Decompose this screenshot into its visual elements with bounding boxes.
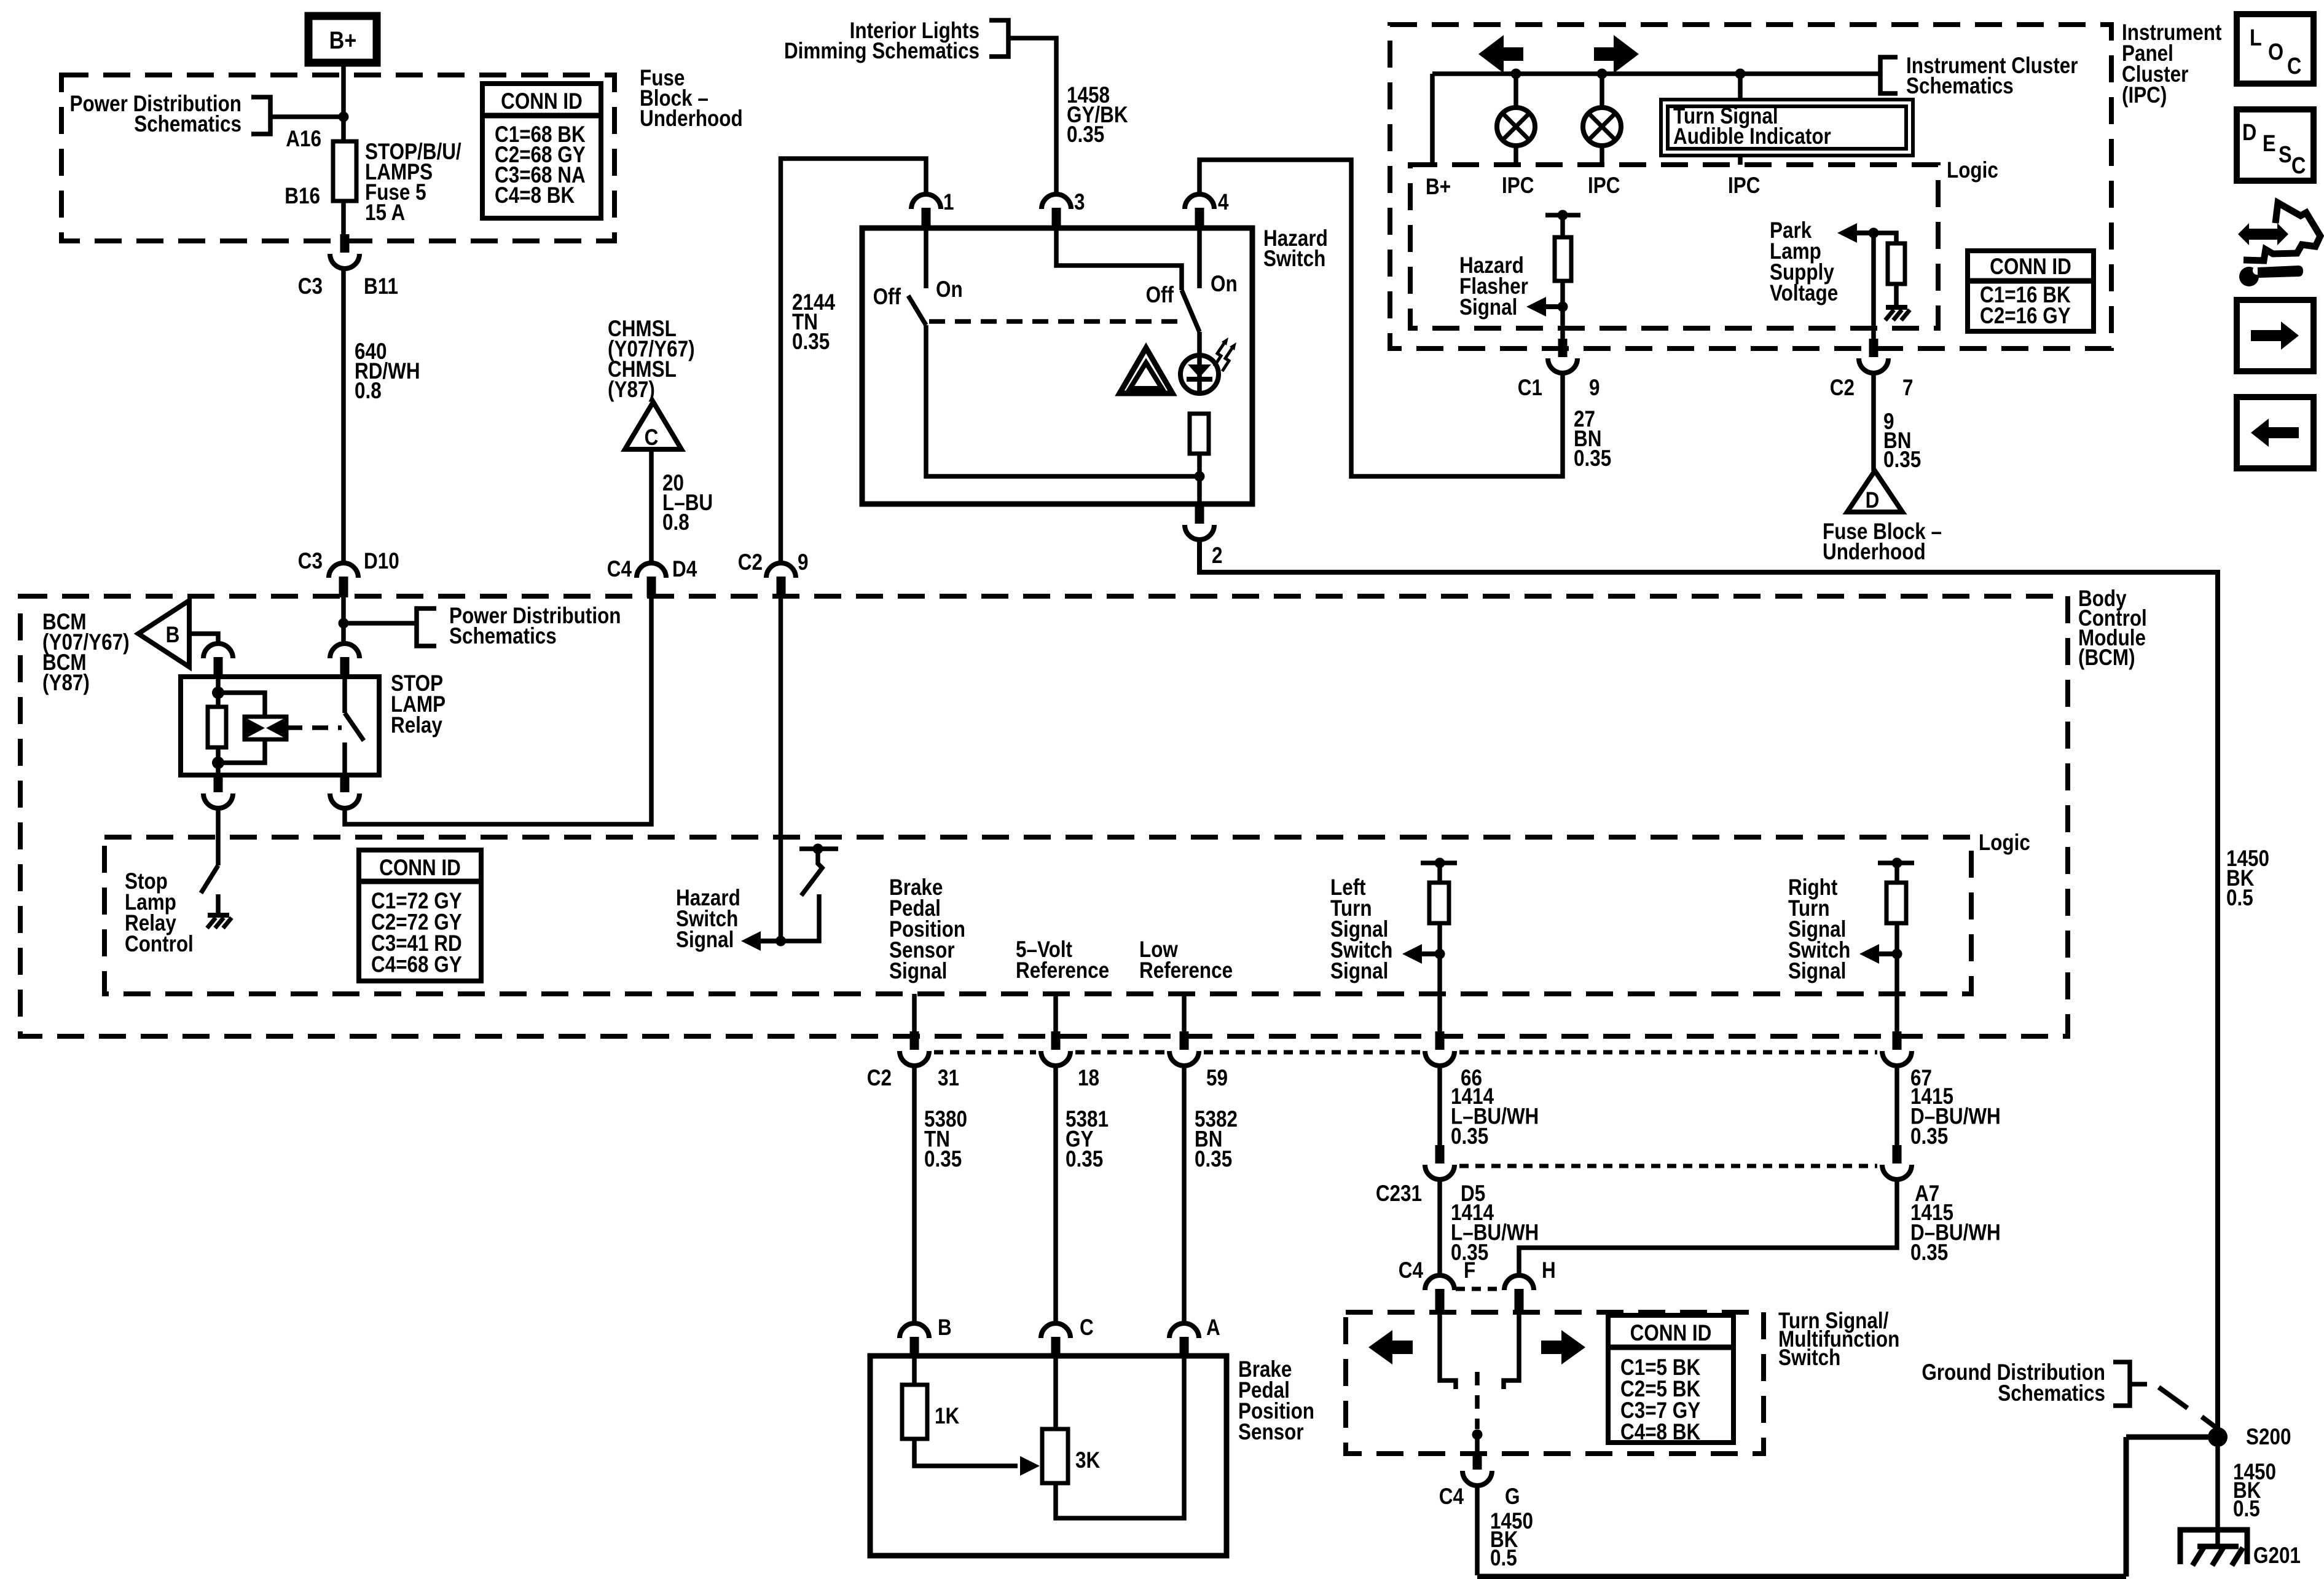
LED triangle [1188,364,1211,377]
connector C1 IPC [1548,358,1577,373]
svg-text:15 A: 15 A [365,200,405,226]
connector C231/A7 [1882,1165,1912,1179]
node multifunction common [1472,1430,1483,1440]
resistor 1K [902,1385,927,1439]
svg-text:B16: B16 [285,184,320,209]
svg-text:Schematics: Schematics [1906,74,2014,99]
wire pin B to 1K [912,1358,917,1385]
connector C2/31 [900,1051,929,1066]
connector pin B [900,1323,929,1338]
relay switch blade [345,713,364,741]
icon box DESC [2237,109,2314,181]
resistor 3K [1042,1429,1068,1483]
svg-text:D4: D4 [672,557,697,582]
node right turn signal [1892,949,1902,959]
wire common to G [1475,1435,1480,1452]
svg-text:S: S [2279,142,2292,168]
svg-text:2: 2 [1212,543,1222,569]
svg-text:18: 18 [1078,1066,1099,1091]
wire B triangle to relay [189,634,218,644]
node junction LED/left-pole [1195,471,1205,482]
svg-text:D: D [2242,120,2256,146]
connector 67 [1882,1051,1912,1066]
IPC feed bus [1432,71,1878,76]
connector F [1425,1275,1454,1290]
svg-text:Voltage: Voltage [1770,281,1838,306]
power symbol B+ box [308,16,377,63]
icon box LOC [2237,14,2314,84]
connector 18 [1041,1051,1070,1066]
bracket instrument cluster schematics [1880,57,1898,93]
connector 59 [1169,1051,1199,1066]
connector pin A [1169,1323,1199,1338]
hazard triangle symbol outer [1120,348,1172,393]
svg-text:0.35: 0.35 [1910,1124,1948,1149]
svg-text:C3: C3 [298,274,323,299]
svg-text:(Y87): (Y87) [608,377,655,403]
svg-text:Schematics: Schematics [449,624,557,649]
svg-text:Sensor: Sensor [1238,1420,1304,1445]
left turn signal pull-up T bar [1421,860,1457,865]
svg-text:Underhood: Underhood [1823,540,1926,565]
ground symbol G201 [2180,1530,2247,1564]
arrow park lamp supply [1857,230,1874,235]
svg-text:IPC: IPC [1728,173,1760,199]
wire bulb2 to logic edge [1600,146,1604,165]
svg-text:C4=8 BK: C4=8 BK [1620,1420,1700,1445]
node park lamp supply [1869,228,1879,238]
wire pin1 to 2144 TN drop [781,159,927,563]
wire to power distribution bracket [343,621,417,626]
right turn arrow icon [1594,35,1639,73]
svg-text:0.35: 0.35 [1195,1147,1232,1172]
svg-text:3K: 3K [1075,1448,1100,1473]
svg-text:L: L [2250,25,2262,51]
node left turn signal [1435,949,1445,959]
svg-text:Reference: Reference [1139,958,1233,983]
ground symbol IPC [1886,305,1907,310]
resistor hazard flasher [1555,237,1571,281]
svg-text:On: On [1211,272,1238,297]
triangle C CHMSL [625,402,681,449]
svg-text:0.35: 0.35 [1574,446,1611,471]
bracket ground distribution [2113,1362,2130,1406]
dashed box IPC logic [1410,165,1938,328]
svg-text:C231: C231 [1376,1181,1422,1207]
svg-text:0.35: 0.35 [1451,1124,1488,1149]
svg-text:C2: C2 [1830,376,1855,401]
switch blade right pole [1182,290,1199,332]
icon wrench [2239,267,2259,286]
bracket interior lights [989,20,1008,57]
arrow left turn signal [1421,951,1440,956]
node junction on fuse feed [339,112,349,122]
hazard triangle symbol inner [1130,363,1162,388]
wire left turn to node [1437,923,1442,994]
svg-text:Audible Indicator: Audible Indicator [1673,124,1831,149]
svg-text:0.5: 0.5 [1490,1546,1517,1571]
svg-text:C: C [1080,1315,1094,1341]
svg-text:C: C [2287,53,2301,79]
wire relay control to switch [216,807,221,865]
connector pin 4 of hazard switch [1185,194,1214,209]
dashed mechanical link [929,319,1183,324]
svg-text:A16: A16 [286,127,321,152]
svg-text:Switch: Switch [1778,1345,1840,1371]
right turn signal pull-up T bar [1878,860,1914,865]
connector C3/D10 [329,563,358,578]
svg-text:(IPC): (IPC) [2122,83,2167,108]
switch blade ground 2 [2202,1417,2216,1428]
wire bulb to logic edge [1513,146,1518,165]
left arrow multifunction [1368,1330,1413,1364]
svg-text:Signal: Signal [1330,959,1388,984]
svg-text:4: 4 [1218,190,1228,215]
wire D5 to F [1437,1179,1442,1275]
svg-text:1K: 1K [935,1404,959,1429]
wire relay coil leg [216,678,221,707]
wire relay coil loop [218,693,265,763]
triangle B BCM [138,600,189,667]
dashed link relay coil to contacts [286,725,342,730]
svg-text:C1: C1 [1518,376,1542,401]
wiper F contact [1440,1310,1456,1389]
node hazard flasher top [1558,210,1568,221]
wiper neutral dashed [1475,1372,1480,1429]
svg-text:IPC: IPC [1502,173,1534,199]
resistor right turn [1886,883,1906,923]
svg-text:7: 7 [1902,376,1913,401]
svg-text:G201: G201 [2253,1543,2301,1569]
wire right turn to node [1894,923,1899,994]
wire pin2 ground run 1450 [1199,538,2218,1437]
hazard switch box [862,228,1252,504]
wire bus to B+ label [1430,74,1435,165]
wire brake signal to connector [912,994,917,1033]
wire resistor to bottom node [216,747,221,775]
relay box STOP LAMP [181,677,379,775]
arrow hazard flasher signal [1546,304,1563,309]
svg-text:C2: C2 [738,550,763,575]
dashed box multifunction switch [1346,1312,1764,1454]
box Turn Signal Audible Indicator [1661,100,1913,156]
svg-text:0.5: 0.5 [2233,1497,2260,1522]
svg-text:Relay: Relay [391,713,442,738]
conn table CONN ID IPC [1968,251,2094,331]
wire right turn to connector [1894,994,1899,1033]
svg-text:CONN ID: CONN ID [379,856,461,881]
hazard flasher T-bar [1545,213,1580,218]
wire left pole to junction [926,325,1197,476]
wire 18 to pin C [1053,1066,1058,1325]
connector C231/D5 [1425,1165,1454,1179]
svg-text:0.35: 0.35 [1883,447,1921,473]
wire to audible indicator [1738,74,1743,100]
relay coil box [245,717,286,739]
wire relay output to CHMSL [345,597,651,824]
svg-text:C4=8 BK: C4=8 BK [495,183,575,208]
svg-text:0.35: 0.35 [924,1147,962,1172]
wire 67 to C231 [1894,1066,1899,1146]
wire park lamp to C2 [1871,233,1876,340]
node power distribution junction [339,618,349,629]
svg-text:S200: S200 [2246,1425,2291,1450]
svg-text:C: C [645,425,659,451]
wire 59 to pin A [1182,1066,1187,1325]
switch blade ground 1 [2159,1387,2188,1408]
svg-text:A: A [1206,1315,1220,1341]
wire 5v ref to connector [1053,994,1058,1033]
wire pin4 On contact [1197,229,1202,288]
wire G to ground bus [1475,1486,1480,1575]
svg-text:Schematics: Schematics [134,112,241,137]
svg-text:C4=68 GY: C4=68 GY [371,952,462,977]
svg-text:Signal: Signal [676,927,734,953]
wiper arrow into 3K [1020,1456,1040,1476]
svg-text:Signal: Signal [889,959,947,984]
connector H [1504,1275,1534,1290]
connector C2 IPC [1859,358,1888,373]
dashed box Fuse Block - Underhood [61,75,614,241]
wire 66 to C231 [1437,1066,1442,1146]
svg-text:Schematics: Schematics [1998,1381,2105,1406]
conn table CONN ID multifunction [1608,1315,1733,1443]
node relay bottom [212,757,224,769]
wire audible to logic edge [1738,156,1743,165]
connector pin 2 of hazard switch [1185,525,1214,540]
wire pin1 On contact [924,229,928,288]
ground symbol relay control [208,913,229,918]
svg-text:Dimming Schematics: Dimming Schematics [784,39,979,64]
wire CHMSL drop [649,449,654,563]
svg-text:3: 3 [1074,190,1085,215]
wire D10 to node [341,597,346,644]
svg-text:CONN ID: CONN ID [1630,1321,1712,1346]
svg-text:Switch: Switch [1263,246,1325,272]
svg-text:1: 1 [943,190,954,215]
LED wire through [1197,354,1202,395]
svg-text:B+: B+ [1426,175,1451,200]
svg-text:0.8: 0.8 [355,379,382,404]
wire to right indicator bulb [1600,74,1604,107]
LED indicator circle [1180,355,1219,393]
svg-text:31: 31 [938,1066,959,1091]
wire right turn stub [1894,863,1899,883]
svg-text:Off: Off [873,285,901,310]
resistor left turn [1429,883,1449,923]
svg-text:D: D [1866,488,1880,513]
svg-text:F: F [1464,1258,1475,1283]
dashed box IPC [1390,25,2111,348]
connector relay switch pin top [330,644,359,658]
conn table CONN ID BCM [359,850,481,981]
wire park branch to resistor [1874,233,1896,243]
relay switch top contact [342,678,347,713]
node hazard switch signal [775,936,786,947]
stub ground bracket [2130,1382,2147,1387]
node hazard flasher signal [1558,302,1568,312]
svg-text:Signal: Signal [1459,295,1517,320]
wire resistor to ground [1894,284,1899,307]
connector C4/G [1462,1471,1492,1486]
wire pin4 to IPC C1 (hazard flasher signal) [1199,160,1563,476]
svg-text:B: B [938,1315,952,1341]
svg-text:O: O [2268,39,2283,65]
wire to left indicator bulb [1513,74,1518,107]
svg-text:C4: C4 [1439,1484,1464,1510]
svg-text:CONN ID: CONN ID [501,89,583,114]
svg-text:IPC: IPC [1588,173,1620,199]
node left turn T [1435,858,1445,868]
LED cathode bar [1187,377,1212,382]
icon box right arrow [2237,300,2314,371]
node bus junction 1 [1511,69,1521,79]
wire 31 to pin B [912,1066,917,1325]
svg-text:Control: Control [125,932,194,957]
hazard signal switch T bar [799,846,838,851]
stop lamp relay control blade [201,865,218,893]
node S200 [2208,1427,2228,1447]
right indicator bulb [1583,108,1621,146]
svg-text:CONN ID: CONN ID [1990,254,2071,280]
dotted link F H [1456,1287,1504,1291]
wire bracket to fuse node [270,114,343,119]
connector relay switch pin bottom [330,793,359,808]
svg-text:C4: C4 [607,557,632,582]
dotted connector row C231 [1459,1164,1877,1168]
resistor park lamp [1888,243,1905,284]
svg-text:E: E [2263,131,2276,157]
LED light arrows [1214,342,1225,366]
connector relay coil pin bottom [203,793,233,808]
wire interior lights to pin 3 [1008,38,1056,194]
wire pin C to 3K [1053,1358,1058,1429]
svg-text:Off: Off [1146,283,1174,308]
icon box left arrow [2237,397,2314,468]
left indicator bulb [1497,108,1535,146]
ground bus wire [1477,1437,2218,1577]
wire 2144 into logic [779,597,783,937]
wire C2 to D triangle [1871,372,1876,471]
bracket power distribution BCM [417,608,436,646]
relay switch bottom contact [342,742,347,775]
connector C2/9 bcm [766,563,796,578]
hazard signal switch contact [780,894,819,941]
connector 66 [1425,1051,1454,1066]
arrow right turn signal [1878,951,1897,956]
svg-text:Reference: Reference [1016,958,1109,983]
connector relay coil pin top [203,644,233,658]
triangle D to fuse block [1847,471,1902,512]
svg-text:Signal: Signal [1788,959,1846,984]
dashed box BCM logic [104,837,1971,994]
node hazard signal switch [813,844,823,854]
svg-text:B11: B11 [364,274,398,299]
node right turn T [1892,858,1902,868]
wiper H contact [1504,1310,1519,1389]
wire resistor to C1 [1560,281,1565,340]
svg-text:C4: C4 [1399,1258,1423,1283]
svg-text:0.35: 0.35 [1910,1240,1948,1266]
connector pin 1 of hazard switch [911,194,941,209]
icon diagnostic double arrow [2238,223,2288,245]
svg-text:Underhood: Underhood [640,106,743,132]
conn table CONN ID fuse block [482,84,601,218]
bracket to power distribution [251,97,270,134]
svg-text:0.5: 0.5 [2226,886,2253,911]
switch blade left pole [908,296,926,325]
connector C3/B11 [330,254,359,269]
box brake pedal position sensor [870,1356,1227,1556]
wire 640 RD/WH [341,267,346,563]
right arrow multifunction [1541,1330,1585,1364]
wire pin3 to right pole [1056,229,1182,290]
svg-text:9: 9 [798,550,808,575]
svg-text:Logic: Logic [1979,830,2030,856]
wire fuse to connector C3/B11 [341,201,346,235]
svg-text:C: C [2291,153,2306,179]
svg-text:0.35: 0.35 [792,329,830,355]
wire B+ to fuse [341,63,346,141]
dashed box BCM [20,596,2068,1036]
wire 3K to pin A [1056,1358,1184,1518]
svg-text:9: 9 [1589,376,1600,401]
wire left turn to connector [1437,994,1442,1033]
svg-text:H: H [1542,1258,1556,1283]
arrow hazard switch signal [761,939,780,943]
connector C4/D4 [637,563,666,578]
svg-text:C3: C3 [298,549,323,574]
hazard signal switch blade [801,849,822,896]
wire S200 to G201 [2215,1437,2220,1548]
svg-text:(Y87): (Y87) [42,671,90,696]
resistor in hazard switch [1190,414,1209,454]
ground stub relay control [216,894,221,915]
dotted connector row C2 [934,1050,1877,1055]
connector pin 3 of hazard switch [1042,194,1071,209]
svg-text:0.8: 0.8 [662,510,689,535]
wire to hazard flasher resistor [1560,215,1565,237]
svg-text:(BCM): (BCM) [2078,645,2135,671]
svg-text:59: 59 [1206,1066,1228,1091]
svg-text:Logic: Logic [1947,158,1998,183]
resistor relay [208,707,226,747]
node relay top [212,687,224,699]
svg-text:B+: B+ [329,26,356,53]
icon diagnostic outline [2244,203,2320,261]
svg-text:B: B [166,623,180,648]
wire left turn stub [1437,863,1442,883]
node bus junction 3 [1735,69,1746,79]
svg-text:0.35: 0.35 [1066,1147,1103,1172]
svg-text:G: G [1505,1484,1520,1510]
svg-text:C2=16 GY: C2=16 GY [1980,304,2071,329]
wire A7 to H [1519,1179,1897,1275]
node bus junction 2 [1597,69,1608,79]
svg-text:D10: D10 [364,549,399,574]
wire blade to LED [1197,332,1202,353]
wire resistor to pin2 [1197,454,1202,504]
left turn arrow icon [1478,35,1523,73]
svg-text:C2: C2 [867,1066,892,1091]
svg-text:On: On [936,277,963,302]
wire low ref to connector [1182,994,1187,1033]
fuse F5 STOP/B/U/LAMPS [333,141,356,201]
wire 1K to wiper arrow [914,1439,1018,1466]
connector pin C [1041,1323,1070,1338]
svg-text:0.35: 0.35 [1067,122,1104,148]
